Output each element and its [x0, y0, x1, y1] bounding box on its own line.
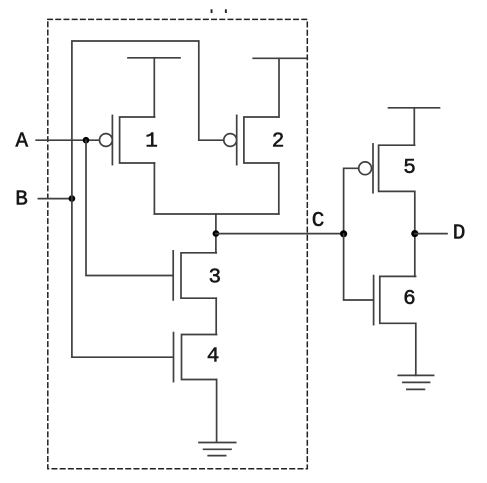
transistor Q3 nmos [173, 251, 221, 300]
ground GND2 [398, 375, 433, 389]
wire node D lead [415, 233, 447, 235]
wire drain of 2 down [278, 163, 280, 214]
wire B lead [38, 198, 73, 200]
power rail VDD2 [253, 57, 306, 59]
junction A [83, 137, 90, 144]
node A label [15, 131, 28, 154]
wire B to gate of 4 [72, 356, 173, 358]
transistor Q2 pmos [224, 115, 285, 164]
wire source of 3 to drain of 4 [215, 298, 217, 334]
wire A to gate of 3 [86, 140, 172, 275]
junction node C left [213, 230, 220, 237]
svg-text:A: A [15, 131, 28, 154]
wire B rail to gate of 2 [72, 41, 224, 357]
node B label [15, 189, 28, 212]
wire drain of 1 down [153, 163, 155, 214]
svg-text:6: 6 [403, 288, 416, 311]
wire VDD1 to source of 1 [153, 58, 155, 117]
power rail VDD1 [128, 57, 180, 59]
transistor Q4 nmos [174, 333, 220, 382]
wire drain join [154, 213, 278, 215]
svg-text:B: B [15, 189, 28, 212]
node C label [312, 210, 325, 233]
svg-text:5: 5 [403, 157, 416, 180]
svg-text:4: 4 [207, 345, 220, 368]
svg-text:3: 3 [208, 267, 221, 290]
wire source of 6 to ground [415, 323, 417, 375]
svg-text:1: 1 [145, 131, 158, 154]
transistor Q1 pmos [100, 115, 158, 164]
junction B [69, 195, 76, 202]
wire node C [216, 233, 344, 235]
wire VDD2 to source of 2 [278, 58, 280, 117]
cropped text marks at top [211, 9, 227, 13]
transistor Q5 pmos [359, 144, 416, 193]
wire drain of 5 to drain of 6 [414, 191, 416, 276]
wire source of 4 to ground [216, 380, 218, 443]
junction node D [411, 230, 418, 237]
svg-text:2: 2 [272, 131, 285, 154]
svg-text:C: C [312, 210, 325, 233]
wire join to drain of 3 [215, 214, 217, 253]
dashed enclosure box [48, 19, 308, 468]
power rail VDD3 [389, 107, 440, 109]
transistor Q6 nmos [374, 276, 416, 325]
svg-text:D: D [453, 222, 466, 245]
wire A lead [36, 139, 99, 141]
junction node C right [340, 230, 347, 237]
ground GND1 [199, 443, 236, 456]
wire VDD3 to source of 5 [413, 108, 415, 145]
wire C to gate of 6 [344, 234, 374, 300]
wire C to gate of 5 [344, 168, 359, 234]
node D label [453, 222, 466, 245]
